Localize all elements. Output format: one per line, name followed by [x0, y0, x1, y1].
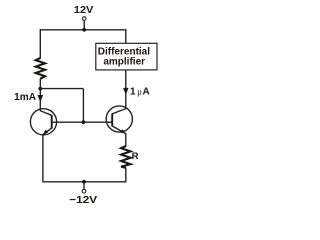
- transistor Q2 body: [106, 106, 132, 132]
- wire terminal stem bottom: [83, 182, 85, 190]
- svg-text:−12V: −12V: [69, 195, 97, 206]
- wire R to bottom rail: [125, 168, 127, 183]
- resistor left (current set): [36, 58, 45, 79]
- junction collector Q1: [38, 87, 42, 91]
- wire base bus: [52, 121, 112, 123]
- terminal -12V: [82, 189, 86, 193]
- svg-text:12V: 12V: [74, 5, 94, 16]
- wire feedback vertical: [82, 89, 84, 123]
- wire resistor to junction: [39, 79, 41, 111]
- svg-text:1μA: 1μA: [130, 87, 150, 98]
- wire right branch to box: [125, 29, 127, 43]
- svg-text:R: R: [132, 151, 139, 162]
- block differential amplifier: [96, 43, 157, 70]
- svg-text:amplifier: amplifier: [103, 57, 145, 68]
- wire Q2 base stub: [106, 121, 112, 123]
- resistor R: [121, 146, 130, 168]
- terminal 12V: [82, 17, 86, 21]
- transistor Q1 base bar: [51, 115, 53, 129]
- transistor Q1 body: [30, 109, 56, 135]
- wire bottom rail: [43, 181, 127, 183]
- wire Q2 emitter down: [125, 133, 127, 146]
- svg-text:1mA: 1mA: [14, 92, 36, 103]
- wire box to Q2 collector: [125, 70, 127, 109]
- transistor Q2 base bar: [111, 114, 113, 127]
- junction top rail: [82, 28, 86, 32]
- junction bottom rail: [82, 180, 86, 184]
- transistor Q2 emitter arrow: [121, 129, 126, 133]
- transistor Q1 emitter lead: [43, 128, 52, 135]
- wire left branch upper: [39, 29, 41, 58]
- transistor Q1 collector lead: [40, 111, 52, 116]
- transistor Q2 emitter lead: [112, 126, 126, 134]
- transistor Q1 emitter arrow: [43, 130, 48, 135]
- wire Q1 emitter down: [42, 134, 44, 182]
- arrow 1uA current: [123, 88, 129, 95]
- transistor Q2 collector lead: [112, 109, 126, 114]
- wire top rail: [40, 29, 127, 31]
- wire terminal stem: [83, 20, 85, 30]
- junction base wire: [82, 120, 86, 124]
- wire feedback horizontal: [40, 88, 83, 90]
- arrow 1mA current: [38, 95, 44, 102]
